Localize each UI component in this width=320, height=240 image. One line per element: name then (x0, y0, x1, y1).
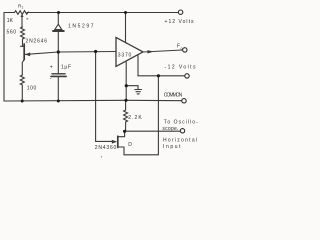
emitter wire to node (25, 52, 115, 55)
wire V+ line (125, 13, 127, 42)
wire source lead (118, 146, 124, 148)
pot wiper arrow (21, 16, 23, 27)
svg-text:COMMON: COMMON (164, 93, 183, 99)
wire -12 rail (138, 75, 185, 77)
svg-text:2N4360: 2N4360 (95, 145, 117, 151)
speck (26, 18, 28, 20)
diode D1 lead from rail (57, 13, 59, 25)
terminal -12 (185, 74, 189, 78)
capacitor C1 1uF plates (52, 73, 65, 75)
terminal COMMON (182, 99, 186, 103)
terminal scope (180, 129, 184, 133)
svg-text:2N2646: 2N2646 (26, 38, 48, 44)
svg-text:scope.: scope. (162, 126, 178, 132)
svg-text:+: + (50, 65, 53, 71)
terminal circles (178, 10, 189, 133)
gate arrowhead (112, 140, 117, 144)
svg-text:1K: 1K (7, 18, 14, 24)
svg-text:100: 100 (27, 86, 37, 92)
node emitter/gate (94, 50, 97, 53)
wire bottom common rail (4, 99, 182, 102)
svg-text:3370: 3370 (118, 53, 132, 59)
wire V- pin down (137, 56, 139, 76)
emitter arrowhead (25, 52, 30, 56)
terminal +12 (178, 10, 182, 14)
resistor 2.2K (124, 100, 128, 131)
ground (135, 90, 142, 94)
node diode/top rail (57, 11, 60, 14)
node rail/100 (21, 100, 24, 103)
node ground/op-amp pin (125, 84, 128, 87)
wire cap bottom lead (57, 77, 59, 102)
wire gate line down (96, 52, 113, 142)
resistor 560 (21, 27, 25, 46)
diode D1 1N5297 (55, 24, 62, 29)
svg-text:1: 1 (21, 6, 23, 10)
ground stub (126, 86, 138, 90)
resistor R1 (pot element) (15, 11, 29, 15)
svg-text:o: o (181, 47, 183, 51)
node emitter/cap (57, 50, 60, 53)
wire top rail left of R1 (4, 12, 15, 14)
wire diode to cap node (57, 32, 59, 74)
terminal F output (183, 48, 187, 52)
output wire with arrow (143, 50, 183, 52)
svg-text:+12 Volts: +12 Volts (165, 19, 195, 25)
wire B1 lead (22, 60, 24, 75)
wire top rail right of R1 to +12 terminal (27, 12, 178, 14)
speck 2 (101, 156, 102, 157)
resistor 100 (20, 75, 24, 101)
node -12/source branch (157, 74, 160, 77)
wire drain lead (118, 131, 125, 136)
svg-text:To Oscillo-: To Oscillo- (164, 120, 198, 126)
wire op-amp bottom pin to rail (125, 62, 127, 100)
transistor Q2 2N4360 channel bar (117, 136, 119, 147)
node drain/scope (123, 130, 126, 133)
svg-text:-12 Volts: -12 Volts (165, 65, 197, 71)
wire B2 tick (21, 45, 25, 47)
wire -12 branch down to source (124, 76, 158, 155)
node V+/top rail (124, 11, 127, 14)
node rail/cap (57, 100, 60, 103)
wire scope line (125, 130, 181, 132)
node rail/2.2K (124, 99, 127, 102)
wire left border (3, 13, 5, 101)
svg-text:D: D (128, 142, 132, 148)
svg-text:Input: Input (163, 144, 181, 150)
svg-text:560: 560 (7, 30, 17, 36)
svg-text:1μF: 1μF (61, 64, 71, 70)
transistor Q1 2N2646 base bar (23, 44, 25, 60)
svg-text:2.2K: 2.2K (128, 115, 142, 121)
op-amp U1 triangle (116, 37, 143, 66)
